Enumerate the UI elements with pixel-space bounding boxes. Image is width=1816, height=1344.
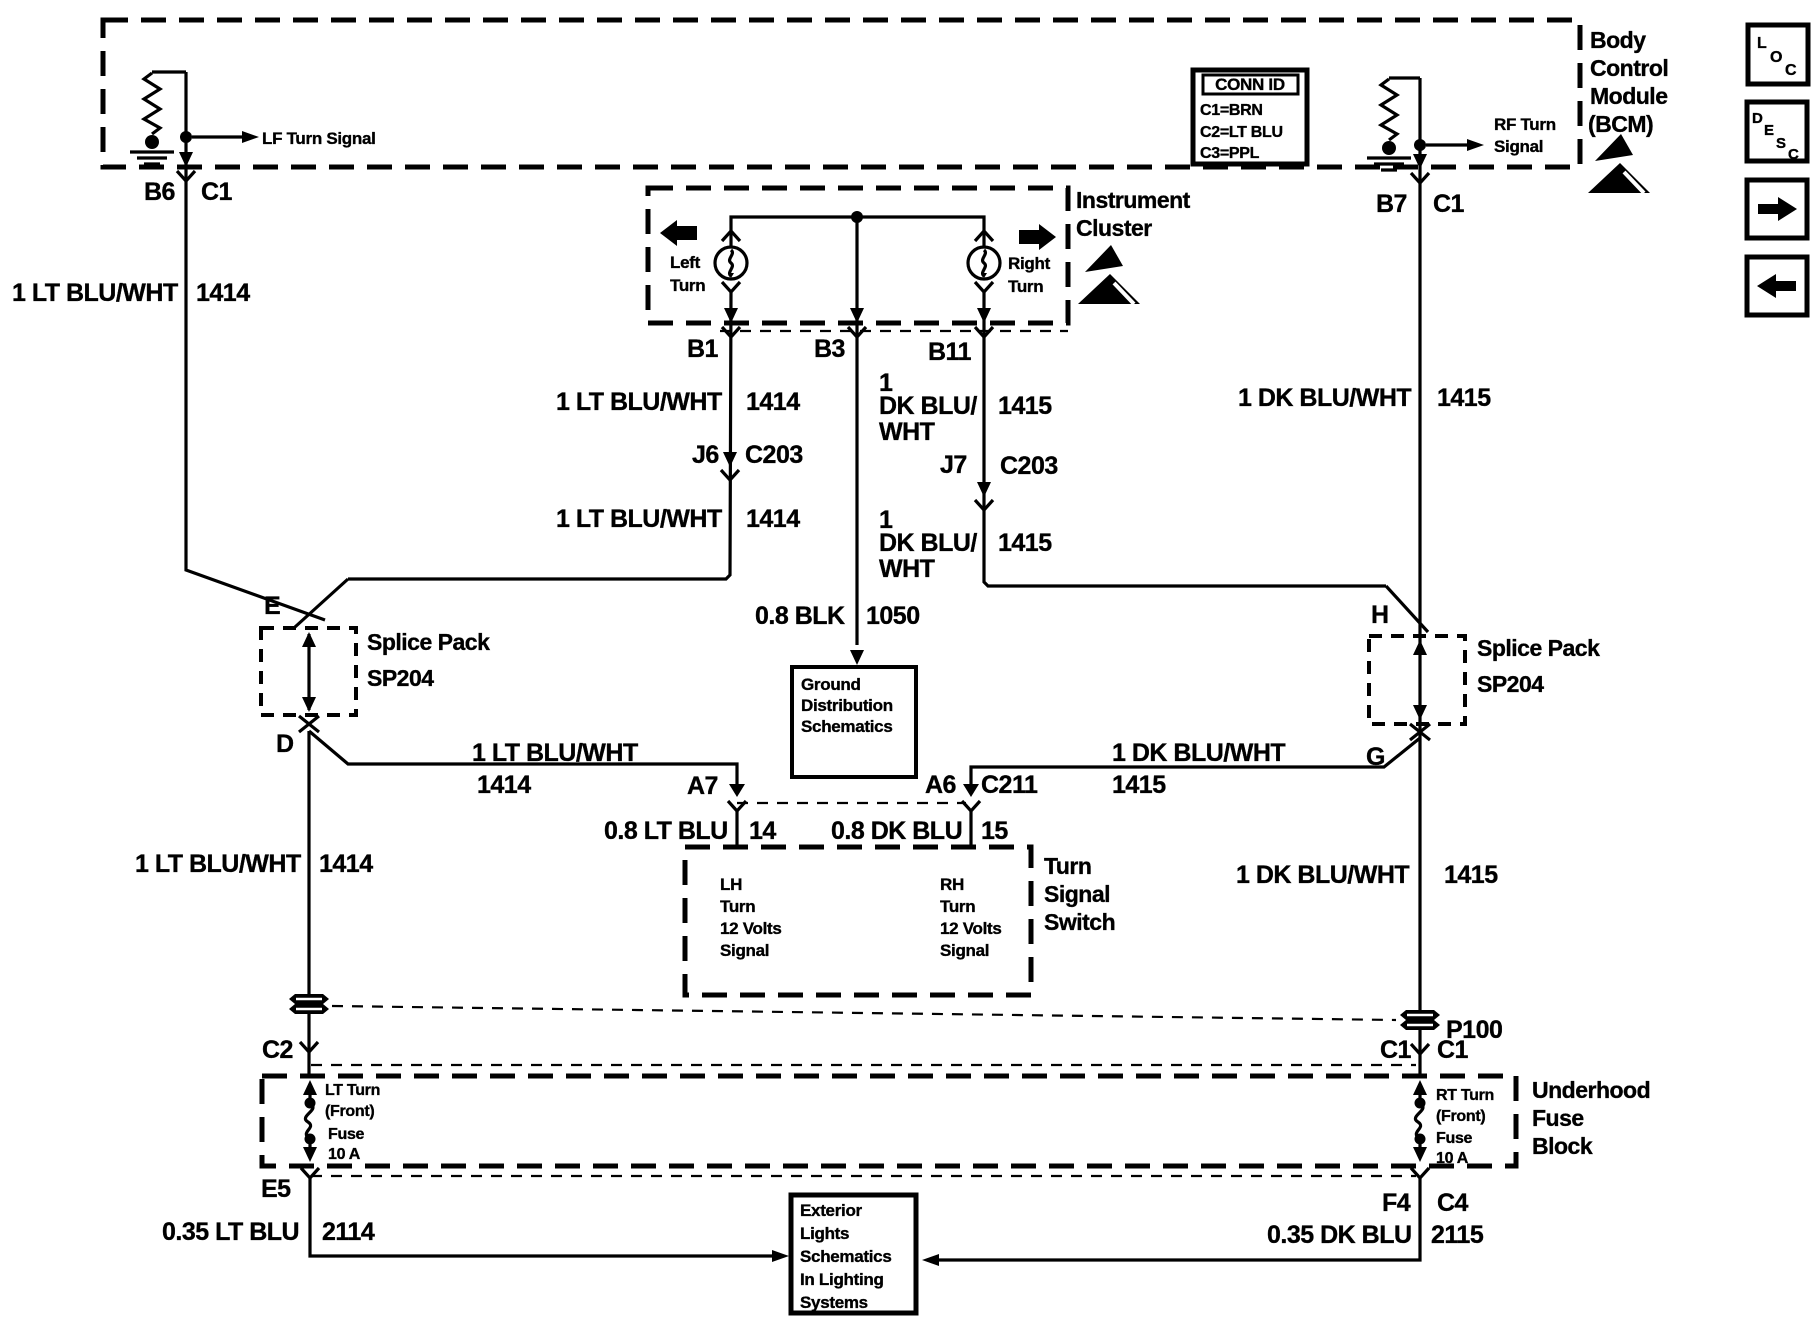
svg-text:(Front): (Front)	[1436, 1108, 1485, 1125]
svg-text:Exterior: Exterior	[800, 1201, 863, 1220]
svg-text:RT Turn: RT Turn	[1436, 1087, 1494, 1104]
svg-text:1414: 1414	[746, 505, 800, 533]
svg-text:1414: 1414	[746, 388, 800, 416]
svg-text:(Front): (Front)	[325, 1103, 374, 1120]
svg-text:Underhood: Underhood	[1532, 1077, 1650, 1103]
svg-text:0.8 BLK: 0.8 BLK	[755, 602, 845, 630]
svg-text:Systems: Systems	[800, 1293, 868, 1312]
svg-text:2115: 2115	[1431, 1221, 1484, 1249]
svg-text:C203: C203	[745, 441, 803, 469]
svg-text:F4: F4	[1382, 1189, 1411, 1217]
svg-text:SP204: SP204	[367, 665, 434, 691]
svg-text:Fuse: Fuse	[1532, 1105, 1584, 1131]
svg-text:LH: LH	[720, 875, 742, 894]
svg-text:In Lighting: In Lighting	[800, 1270, 884, 1289]
svg-text:Turn: Turn	[670, 276, 705, 295]
svg-text:14: 14	[749, 817, 776, 845]
svg-text:Signal: Signal	[720, 941, 769, 960]
svg-text:C: C	[1785, 62, 1797, 79]
svg-text:C3=PPL: C3=PPL	[1200, 145, 1260, 162]
svg-text:LF Turn Signal: LF Turn Signal	[262, 129, 376, 148]
svg-text:1 DK BLU/WHT: 1 DK BLU/WHT	[1238, 384, 1411, 412]
svg-text:Module: Module	[1590, 83, 1668, 109]
svg-text:S: S	[1776, 135, 1786, 152]
svg-text:C211: C211	[981, 771, 1038, 799]
svg-text:Control: Control	[1590, 55, 1668, 81]
svg-text:C4: C4	[1437, 1189, 1469, 1217]
svg-text:Body: Body	[1590, 27, 1646, 53]
svg-text:Switch: Switch	[1044, 909, 1115, 935]
svg-text:C2=LT BLU: C2=LT BLU	[1200, 124, 1283, 141]
svg-text:1414: 1414	[319, 850, 373, 878]
svg-text:WHT: WHT	[879, 418, 935, 446]
svg-text:Signal: Signal	[1494, 137, 1543, 156]
svg-text:1415: 1415	[998, 529, 1052, 557]
svg-text:Signal: Signal	[1044, 881, 1110, 907]
svg-text:Fuse: Fuse	[328, 1126, 365, 1143]
svg-text:Lights: Lights	[800, 1224, 849, 1243]
svg-text:C: C	[1788, 146, 1799, 163]
svg-text:E: E	[1764, 122, 1774, 139]
svg-text:1414: 1414	[196, 279, 250, 307]
svg-text:1050: 1050	[866, 602, 920, 630]
svg-text:B11: B11	[928, 338, 972, 366]
svg-text:B1: B1	[687, 335, 719, 363]
svg-text:1 DK BLU/WHT: 1 DK BLU/WHT	[1236, 861, 1409, 889]
svg-text:A6: A6	[925, 771, 956, 799]
svg-text:Splice Pack: Splice Pack	[367, 629, 490, 655]
svg-text:1415: 1415	[1444, 861, 1498, 889]
svg-text:Left: Left	[670, 253, 701, 272]
svg-text:12 Volts: 12 Volts	[940, 919, 1002, 938]
svg-text:Schematics: Schematics	[801, 717, 893, 736]
svg-text:B7: B7	[1376, 190, 1407, 218]
svg-text:Turn: Turn	[1044, 853, 1091, 879]
svg-text:O: O	[1770, 49, 1782, 66]
svg-text:C1: C1	[1433, 190, 1465, 218]
svg-text:Turn: Turn	[940, 897, 975, 916]
svg-text:RH: RH	[940, 875, 964, 894]
svg-text:CONN ID: CONN ID	[1215, 75, 1285, 94]
svg-text:Distribution: Distribution	[801, 696, 893, 715]
svg-text:E: E	[264, 592, 280, 620]
svg-text:0.35 DK BLU: 0.35 DK BLU	[1267, 1221, 1412, 1249]
svg-text:C203: C203	[1000, 452, 1058, 480]
svg-text:B3: B3	[814, 335, 845, 363]
svg-text:Cluster: Cluster	[1076, 215, 1152, 241]
svg-text:15: 15	[981, 817, 1008, 845]
svg-text:Fuse: Fuse	[1436, 1130, 1473, 1147]
svg-text:0.8 LT BLU: 0.8 LT BLU	[604, 817, 728, 845]
svg-text:1 LT BLU/WHT: 1 LT BLU/WHT	[556, 388, 722, 416]
svg-text:J7: J7	[940, 451, 967, 479]
svg-text:C1=BRN: C1=BRN	[1200, 102, 1263, 119]
svg-text:1415: 1415	[1437, 384, 1491, 412]
svg-text:L: L	[1757, 35, 1767, 52]
svg-text:C1: C1	[201, 178, 233, 206]
svg-text:H: H	[1371, 601, 1389, 629]
svg-text:0.35 LT BLU: 0.35 LT BLU	[162, 1218, 299, 1246]
svg-text:10 A: 10 A	[328, 1146, 361, 1163]
svg-text:WHT: WHT	[879, 555, 935, 583]
svg-text:D: D	[276, 730, 294, 758]
svg-text:1 DK BLU/WHT: 1 DK BLU/WHT	[1112, 739, 1285, 767]
svg-text:A7: A7	[687, 772, 718, 800]
svg-text:LT Turn: LT Turn	[325, 1082, 380, 1099]
svg-text:E5: E5	[261, 1175, 291, 1203]
svg-text:Ground: Ground	[801, 675, 861, 694]
svg-text:J6: J6	[692, 441, 719, 469]
svg-text:DK BLU/: DK BLU/	[879, 392, 977, 420]
svg-text:1 LT BLU/WHT: 1 LT BLU/WHT	[472, 739, 638, 767]
svg-text:1415: 1415	[1112, 771, 1166, 799]
svg-text:1 LT BLU/WHT: 1 LT BLU/WHT	[135, 850, 301, 878]
svg-text:Schematics: Schematics	[800, 1247, 892, 1266]
svg-text:DK BLU/: DK BLU/	[879, 529, 977, 557]
svg-text:Turn: Turn	[720, 897, 755, 916]
svg-text:2114: 2114	[322, 1218, 375, 1246]
svg-text:C1: C1	[1437, 1036, 1469, 1064]
svg-text:1415: 1415	[998, 392, 1052, 420]
svg-text:Right: Right	[1008, 254, 1051, 273]
svg-text:0.8 DK BLU: 0.8 DK BLU	[831, 817, 962, 845]
svg-text:B6: B6	[144, 178, 175, 206]
svg-text:1414: 1414	[477, 771, 531, 799]
svg-text:Turn: Turn	[1008, 277, 1043, 296]
svg-text:1 LT BLU/WHT: 1 LT BLU/WHT	[12, 279, 178, 307]
svg-text:12 Volts: 12 Volts	[720, 919, 782, 938]
svg-text:SP204: SP204	[1477, 671, 1544, 697]
svg-text:Signal: Signal	[940, 941, 989, 960]
svg-text:Block: Block	[1532, 1133, 1593, 1159]
svg-text:1 LT BLU/WHT: 1 LT BLU/WHT	[556, 505, 722, 533]
svg-text:RF Turn: RF Turn	[1494, 115, 1556, 134]
svg-text:C1: C1	[1380, 1036, 1412, 1064]
svg-text:Instrument: Instrument	[1076, 187, 1191, 213]
svg-text:(BCM): (BCM)	[1588, 111, 1653, 137]
svg-text:C2: C2	[262, 1036, 293, 1064]
svg-text:10 A: 10 A	[1436, 1150, 1469, 1167]
svg-text:D: D	[1752, 110, 1763, 127]
svg-text:Splice Pack: Splice Pack	[1477, 635, 1600, 661]
